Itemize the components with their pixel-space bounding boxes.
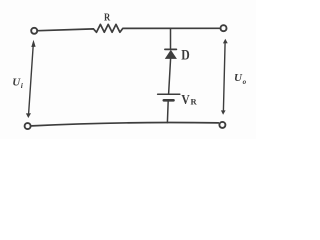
svg-text:D: D — [181, 47, 190, 63]
svg-text:i: i — [21, 81, 24, 90]
svg-text:R: R — [104, 12, 111, 24]
svg-text:R: R — [191, 97, 198, 107]
svg-text:o: o — [243, 78, 247, 86]
svg-text:V: V — [181, 92, 190, 107]
